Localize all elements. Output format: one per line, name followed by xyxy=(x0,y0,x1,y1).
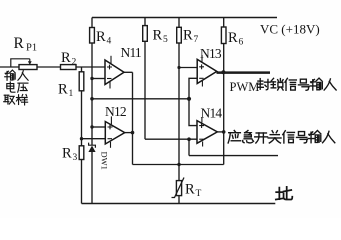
node: N14 minus junction xyxy=(187,137,191,141)
svg-text:VC (+18V): VC (+18V) xyxy=(260,22,320,37)
wire: N14 output stub xyxy=(217,131,223,133)
potentiometer RP1 body xyxy=(19,65,37,70)
wire: node A to N13-/N14+ horizontal link xyxy=(92,98,189,100)
svg-text:3: 3 xyxy=(73,153,78,163)
wire: N13 output PWM line xyxy=(217,71,271,74)
node: R7 / line B junction xyxy=(177,163,180,166)
wire: N12 minus line from R1/R3 node xyxy=(82,138,106,140)
node: N13 output junction xyxy=(221,70,225,74)
label: PWM blocking signal input xyxy=(257,79,270,90)
svg-text:N14: N14 xyxy=(201,106,223,121)
wire: N12 output stub xyxy=(125,132,133,134)
wire: N11 output to vertical OR bus xyxy=(124,71,133,73)
resistor R5 xyxy=(143,26,148,42)
RP1 wiper arrowhead xyxy=(28,61,32,65)
zener diode DW1 xyxy=(89,143,96,148)
svg-text:R: R xyxy=(61,50,71,66)
node: R7 / N13 plus junction xyxy=(177,66,180,69)
wire: output OR bus vertical xyxy=(132,72,134,164)
wire: R6 down through N13/N14 outputs to line B xyxy=(223,44,225,165)
label: input voltage sampling (3 lines) xyxy=(5,70,15,80)
wire: R5 corner to N14 minus xyxy=(145,138,197,140)
op-amp N13 xyxy=(197,59,217,83)
resistor R6 xyxy=(221,27,226,44)
wire: R4 stub from bus xyxy=(91,18,93,28)
wire: R7 down line through N13+ junction to RT xyxy=(178,43,180,181)
resistor R2 xyxy=(61,65,77,70)
resistor R3 xyxy=(79,146,84,160)
svg-text:R: R xyxy=(62,146,72,162)
node: R1/R3/N12- junction xyxy=(80,137,83,140)
svg-text:R: R xyxy=(96,29,106,45)
svg-text:R: R xyxy=(185,182,195,198)
node: N11 minus junction xyxy=(90,77,93,80)
svg-text:1: 1 xyxy=(69,89,74,99)
svg-text:N13: N13 xyxy=(200,46,222,61)
wire: R1 bottom to R3 node xyxy=(81,91,83,146)
wire: node A vertical (R4 / N11- / N12+ / DW1 cathode) xyxy=(91,43,93,145)
svg-text:T: T xyxy=(196,189,202,199)
resistor R4 xyxy=(90,28,95,44)
svg-text:P1: P1 xyxy=(26,43,37,54)
svg-text:6: 6 xyxy=(239,38,244,48)
svg-text:7: 7 xyxy=(194,35,199,45)
wire: input sample main wire to N11 + input xyxy=(0,66,105,68)
node: link line left junction xyxy=(90,97,94,101)
wire: R3 bottom to ground xyxy=(81,160,83,204)
resistor R7 xyxy=(177,27,182,43)
svg-text:N12: N12 xyxy=(105,104,126,119)
wire: N13 plus input stub xyxy=(179,67,197,69)
wire: DW1 anode down to ground xyxy=(91,152,93,204)
svg-text:N11: N11 xyxy=(121,45,141,60)
svg-text:PWM: PWM xyxy=(230,80,260,94)
svg-text:R: R xyxy=(153,28,163,44)
op-amp N14 xyxy=(197,121,217,144)
wire: R5 down line xyxy=(144,41,146,139)
wire: N12 plus input stub xyxy=(92,126,106,128)
svg-text:DW1: DW1 xyxy=(100,152,110,170)
label: ground xyxy=(276,187,292,200)
op-amp N12 xyxy=(105,122,124,145)
wire: N11 minus input stub xyxy=(92,78,105,80)
potentiometer RP1 wiper and loop xyxy=(11,59,30,67)
wire: line B bottom OR bus horizontal xyxy=(133,164,224,166)
wire: R1 top stub xyxy=(81,67,83,72)
wire: R6 stub from bus xyxy=(223,18,225,28)
thermistor RT slash xyxy=(172,178,185,198)
svg-text:R: R xyxy=(228,30,238,46)
wire: ground bus xyxy=(82,203,276,205)
svg-text:R: R xyxy=(58,82,68,98)
svg-text:4: 4 xyxy=(107,37,112,47)
node: N12 output junction xyxy=(131,131,135,135)
label: emergency switch signal input xyxy=(228,130,241,143)
resistor R1 xyxy=(79,72,84,91)
wire: RT bottom to ground xyxy=(178,196,180,204)
svg-text:2: 2 xyxy=(72,58,77,68)
svg-text:R: R xyxy=(183,28,193,44)
wire: N14 minus down to line A xyxy=(188,139,190,155)
svg-text:R: R xyxy=(14,35,25,52)
wire: R7 stub from bus xyxy=(178,18,180,28)
node: N14 output junction xyxy=(222,130,226,134)
wire: N13- / N14+ tie line xyxy=(189,78,197,125)
wire: R5 stub from bus xyxy=(144,18,146,26)
svg-text:5: 5 xyxy=(163,35,168,45)
op-amp N11 xyxy=(105,60,124,85)
thermistor RT body xyxy=(176,181,181,196)
wire: VC top bus xyxy=(92,17,277,19)
node: N12 plus junction xyxy=(90,125,93,128)
wire: line A emergency input line xyxy=(189,155,278,157)
node: link line right junction xyxy=(187,97,191,101)
